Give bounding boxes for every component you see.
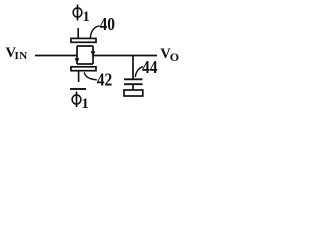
capacitor 44 bottom plate bbox=[124, 83, 143, 85]
svg-text:1: 1 bbox=[83, 9, 90, 25]
capacitor substrate box bbox=[124, 90, 143, 96]
clock label phi1 (top) bbox=[73, 5, 90, 26]
svg-text:40: 40 bbox=[100, 14, 115, 34]
capacitor bottom plate stem bbox=[132, 85, 134, 91]
node vO label bbox=[160, 46, 179, 64]
svg-text:IN: IN bbox=[15, 50, 28, 62]
source arrow on left edge (transistor 42) bbox=[75, 58, 80, 63]
svg-text:42: 42 bbox=[97, 69, 112, 89]
wire down to capacitor 44 bbox=[132, 56, 134, 79]
svg-text:1: 1 bbox=[82, 96, 89, 112]
clock label phi1-bar (bottom) bbox=[70, 89, 89, 112]
transistor channel box (shared by 40 and 42) bbox=[77, 46, 93, 64]
reference numeral 40 with leader bbox=[90, 14, 115, 38]
svg-text:44: 44 bbox=[142, 57, 158, 77]
wire transistor drain to vO bbox=[93, 55, 157, 57]
gate stem to phi1 bbox=[77, 28, 79, 38]
reference numeral 42 with leader bbox=[84, 69, 112, 89]
svg-text:O: O bbox=[170, 50, 179, 64]
reference numeral 44 with leader bbox=[135, 57, 158, 77]
source arrow on right edge (transistor 40) bbox=[91, 51, 96, 56]
gate plate of transistor 42 bbox=[71, 67, 96, 71]
gate stem to phi1-bar bbox=[78, 71, 80, 82]
wire vIN to transistor source bbox=[35, 55, 77, 57]
capacitor 44 top plate bbox=[124, 78, 143, 80]
gate plate of transistor 40 bbox=[71, 38, 96, 42]
node vIN label bbox=[6, 45, 28, 62]
